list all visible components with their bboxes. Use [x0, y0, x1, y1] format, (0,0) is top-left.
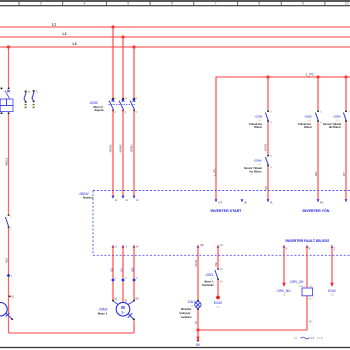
svg-text:2: 2 — [115, 111, 117, 114]
wire label W031 (rotated) — [109, 144, 113, 153]
svg-text:4: 4 — [270, 166, 272, 169]
svg-text:A1: A1 — [310, 285, 313, 288]
motor M2 lead — [114, 301, 134, 304]
terminal X2 diamonds — [111, 278, 136, 282]
wire label RUN (rotated) — [194, 260, 198, 267]
lamp L3 indicator — [195, 302, 201, 308]
wire phase 3 breaker to inverter — [133, 110, 135, 196]
svg-text:SD: SD — [244, 203, 248, 205]
wire label W043 (rotated) — [263, 143, 267, 151]
svg-text:3: 3 — [270, 111, 272, 114]
wire label W021 (rotated) — [4, 157, 8, 166]
svg-text:3: 3 — [320, 111, 322, 114]
terminal X1 diamond — [7, 274, 13, 278]
motor M1 (cropped at left edge) — [0, 303, 7, 316]
svg-text:-0284: -0284 — [333, 115, 341, 119]
switch S284 — [265, 155, 272, 169]
svg-text:1: 1 — [10, 216, 12, 219]
svg-text:L_PC: L_PC — [212, 168, 216, 176]
label DRV_NG — [277, 289, 291, 297]
label L_PC — [306, 72, 315, 76]
contact K1 main (left branch) — [5, 214, 12, 230]
wire branch RL — [267, 77, 269, 200]
switch S282 — [315, 110, 322, 124]
svg-text:V: V — [126, 247, 128, 249]
svg-text:0V: 0V — [194, 321, 198, 324]
svg-text:3: 3 — [136, 278, 138, 280]
svg-text:13: 13 — [28, 91, 31, 94]
wire label L_PC vertical (rotated) — [212, 168, 216, 176]
svg-text:NE: NE — [214, 262, 218, 266]
svg-text:M: M — [121, 305, 125, 310]
svg-text:Sigorta: Sigorta — [95, 108, 104, 112]
wire label RT (rotated) — [342, 172, 346, 176]
svg-text:2.6: 2.6 — [308, 120, 312, 122]
svg-text:-00INV: -00INV — [79, 192, 90, 196]
arrow E24V right — [330, 283, 333, 287]
switch S285 (cropped) — [343, 110, 350, 122]
svg-text:2.6: 2.6 — [258, 120, 262, 122]
motor starter Q1 pins — [1, 88, 10, 114]
inverter terminal RT — [345, 199, 348, 202]
frame top border — [0, 0, 350, 2]
relay coil DRV_OK — [290, 280, 314, 323]
switch S283 — [265, 110, 272, 124]
inverter terminal RL — [267, 199, 274, 204]
wire left branch vertical from L3 — [8, 47, 10, 333]
motor M1 PE pin — [11, 318, 13, 320]
svg-text:-0284: -0284 — [254, 159, 262, 163]
label L3 lamp — [180, 300, 196, 319]
svg-text:-0283: -0283 — [254, 115, 262, 119]
label M2 — [98, 308, 108, 316]
label E24V right — [328, 289, 337, 297]
wire DRV_NG branch — [283, 246, 285, 284]
inverter terminal SD (unwired) — [241, 199, 248, 204]
wire E24V right branch — [331, 246, 333, 284]
motor M1 pin — [9, 296, 15, 299]
motor M2 pin labels — [114, 298, 139, 302]
wire branch RH — [317, 77, 319, 200]
label S285 (cropped) — [323, 115, 341, 129]
label L2 — [63, 32, 67, 36]
svg-text:2.6: 2.6 — [258, 164, 262, 166]
circuit breaker Q030 pin numbers — [115, 97, 138, 114]
svg-text:-0282: -0282 — [304, 115, 312, 119]
svg-text:1: 1 — [115, 278, 117, 280]
svg-text:14: 14 — [311, 336, 314, 340]
svg-text:(2.1): (2.1) — [318, 336, 323, 340]
label L3 — [73, 42, 77, 46]
node junction L2/phase2 — [121, 35, 124, 38]
svg-text:E24V: E24V — [328, 289, 337, 293]
circuit breaker Q030 pins — [112, 98, 135, 111]
svg-text:E24V: E24V — [214, 301, 223, 305]
inverter U1 dashed enclosure — [93, 191, 350, 256]
svg-text:-W1: -W1 — [4, 258, 8, 264]
wire Rth branch — [197, 246, 199, 337]
svg-text:L3: L3 — [136, 200, 139, 202]
svg-text:-W021: -W021 — [4, 157, 8, 166]
svg-text:-W051: -W051 — [130, 144, 134, 153]
potential arrow 0V — [196, 337, 199, 342]
inverter terminal STR — [215, 199, 223, 204]
svg-text:B: B — [309, 248, 311, 250]
node junction L3 left — [7, 45, 10, 48]
label K1 — [202, 273, 214, 287]
svg-text:-03M2: -03M2 — [98, 308, 107, 312]
svg-text:2.8: 2.8 — [330, 295, 334, 297]
svg-text:-03L3: -03L3 — [187, 300, 196, 304]
frame ruler digits — [40, 2, 349, 6]
cross reference text bottom right — [294, 336, 323, 340]
wire label V2 (rotated) — [120, 268, 124, 272]
inverter output terminals U V W — [112, 245, 140, 249]
svg-text:2.8: 2.8 — [216, 307, 220, 309]
wire drop phase 2 from L2 — [122, 37, 124, 99]
svg-text:0V: 0V — [196, 343, 201, 347]
svg-text:9: 9 — [302, 2, 304, 6]
svg-text:24VDC: 24VDC — [299, 286, 306, 288]
svg-text:RUN: RUN — [194, 260, 198, 267]
svg-text:RL: RL — [264, 185, 268, 189]
motor M2 PE earth mark — [128, 313, 134, 319]
svg-text:Motorlar: Motorlar — [181, 307, 191, 311]
svg-text:STF: STF — [218, 203, 223, 205]
wire rail L2 — [0, 36, 350, 38]
inverter terminal 14 — [217, 245, 224, 248]
svg-text:3: 3 — [270, 155, 272, 158]
svg-text:6: 6 — [171, 2, 173, 6]
svg-text:Hız Rölesi: Hız Rölesi — [329, 126, 341, 129]
label S284 — [244, 159, 262, 174]
svg-text:A: A — [286, 247, 288, 250]
svg-text:Lambası: Lambası — [181, 315, 192, 319]
auxiliary contact S1a — [24, 91, 31, 109]
svg-text:7: 7 — [215, 2, 217, 6]
wire PE bottom rail — [9, 332, 135, 334]
label 0V — [196, 343, 201, 347]
arrow DRV_NG — [282, 283, 285, 287]
frame ruler ticks — [19, 1, 325, 6]
wire label W1 (rotated) — [4, 258, 8, 264]
svg-text:İnverter: İnverter — [83, 196, 93, 200]
motor M1 PE earth mark — [6, 313, 12, 319]
svg-text:4: 4 — [125, 111, 127, 114]
svg-text:W1: W1 — [135, 298, 139, 300]
svg-text:2: 2 — [126, 278, 128, 280]
svg-text:10: 10 — [294, 336, 297, 340]
auxiliary contact S1b — [32, 90, 39, 108]
wire contact K1 aux branch — [217, 246, 219, 298]
inverter terminal Rth — [197, 244, 205, 248]
wire motor M2 PE to rail — [133, 321, 135, 334]
svg-text:V2: V2 — [120, 268, 124, 272]
potential point E24V left — [214, 296, 223, 309]
wire label RH (rotated) — [314, 172, 318, 176]
svg-text:A2: A2 — [309, 298, 312, 301]
svg-text:14: 14 — [283, 295, 286, 297]
svg-text:Motor 1: Motor 1 — [98, 311, 108, 315]
svg-text:1: 1 — [11, 276, 13, 278]
svg-text:3: 3 — [40, 2, 42, 6]
label INVERTER YON — [303, 208, 330, 213]
label U1 inverter — [79, 192, 93, 200]
svg-text:3: 3 — [125, 97, 127, 100]
circuit breaker Q030 3-pole — [109, 99, 137, 109]
node junction 0V — [196, 328, 199, 331]
wire branch RT (right edge) — [345, 77, 347, 200]
svg-text:L2: L2 — [63, 32, 67, 36]
node junction L_PC/RT — [344, 75, 347, 78]
svg-text:21: 21 — [36, 90, 39, 93]
svg-text:Kumanda: Kumanda — [202, 284, 214, 287]
wire V inverter to motor — [122, 246, 124, 303]
wire label W2 (rotated) — [131, 267, 135, 272]
label S283 — [249, 115, 263, 129]
svg-text:RL: RL — [270, 203, 274, 205]
wire label W041 (rotated) — [119, 144, 123, 153]
svg-text:-W041: -W041 — [119, 144, 123, 153]
wire drop phase 1 from L1 — [112, 27, 114, 99]
svg-text:14: 14 — [220, 245, 223, 247]
svg-text:1: 1 — [115, 97, 117, 100]
svg-text:L1: L1 — [115, 200, 118, 202]
svg-text:4: 4 — [84, 2, 86, 6]
svg-text:Rölesi: Rölesi — [304, 126, 312, 129]
svg-text:A2: A2 — [309, 321, 313, 324]
frame ruler bottom line — [0, 5, 350, 7]
inverter terminal RH — [317, 199, 324, 204]
wire label W051 (rotated) — [130, 144, 134, 153]
svg-text:U: U — [115, 247, 117, 249]
svg-text:4: 4 — [270, 122, 272, 125]
wire DRV_OK branch — [306, 246, 308, 331]
svg-text:2.6: 2.6 — [336, 120, 340, 122]
svg-text:2: 2 — [10, 228, 12, 231]
node junction L_PC/RH — [316, 75, 319, 78]
svg-text:13: 13 — [220, 268, 223, 271]
label INVERTER FAULT — [286, 239, 329, 243]
svg-text:L3: L3 — [73, 42, 77, 46]
wire label 0V (rotated) — [194, 321, 198, 324]
svg-text:-02K1: -02K1 — [205, 273, 214, 277]
wire label RL (rotated) — [264, 185, 268, 189]
node junction L_PC/RL — [266, 75, 269, 78]
wire rail L1 — [0, 26, 350, 28]
wire U inverter to motor — [112, 246, 114, 302]
wire label U2 (rotated) — [110, 268, 114, 272]
svg-text:L_PC: L_PC — [306, 72, 315, 76]
wire phase 2 breaker to inverter — [122, 110, 124, 196]
svg-text:-DRV_OK: -DRV_OK — [290, 280, 305, 284]
motor M2 — [116, 302, 130, 316]
label S282 — [298, 115, 312, 129]
inverter fault terminals A B C — [283, 245, 336, 251]
svg-text:3~: 3~ — [121, 311, 125, 315]
wire rail L3 — [0, 46, 350, 48]
svg-text:U2: U2 — [110, 268, 114, 272]
svg-text:İNVERTER START: İNVERTER START — [211, 209, 243, 213]
wire phase 1 breaker to inverter — [112, 110, 114, 196]
node junction L1/phase1 — [111, 25, 114, 28]
contact K1 auxiliary — [215, 268, 223, 283]
svg-text:W2: W2 — [131, 267, 135, 272]
frame bottom border — [0, 347, 350, 349]
wire drop phase 3 from L3 — [133, 47, 135, 99]
svg-text:L2: L2 — [126, 200, 129, 202]
svg-text:RT: RT — [342, 172, 346, 176]
svg-text:8: 8 — [258, 2, 260, 6]
svg-text:5: 5 — [127, 2, 129, 6]
svg-text:14: 14 — [220, 280, 223, 283]
motor M2 pins — [112, 300, 135, 302]
svg-text:6: 6 — [136, 111, 138, 114]
wire 0V horizontal — [198, 329, 307, 331]
svg-text:U1: U1 — [114, 298, 118, 300]
svg-text:U1: U1 — [11, 296, 15, 298]
svg-text:Rth: Rth — [200, 244, 204, 247]
svg-text:RH: RH — [314, 172, 318, 176]
node junction L3/phase3 — [132, 45, 135, 48]
svg-text:İNVERTER FAULT BİLGİSİ: İNVERTER FAULT BİLGİSİ — [286, 239, 329, 243]
wire L_PC rail — [216, 77, 350, 200]
svg-text:L1: L1 — [52, 23, 56, 27]
svg-text:-0043: -0043 — [263, 143, 267, 151]
terminal X2 pin labels — [115, 278, 138, 280]
motor starter Q1 (left, partially cropped) — [0, 90, 13, 112]
svg-text:-0030: -0030 — [89, 101, 98, 105]
label Q030 — [89, 101, 104, 112]
svg-text:W: W — [136, 247, 139, 249]
svg-text:C: C — [334, 248, 336, 250]
svg-text:İNVERTER YÖN: İNVERTER YÖN — [303, 208, 330, 213]
svg-text:RH: RH — [320, 203, 324, 205]
inverter input terminals L1 L2 L3 — [112, 196, 140, 203]
svg-text:Çalışıyor: Çalışıyor — [180, 311, 191, 315]
svg-text:4: 4 — [320, 122, 322, 125]
svg-text:DRV_NG: DRV_NG — [277, 289, 291, 293]
label INVERTER START — [211, 209, 243, 213]
svg-text:5: 5 — [136, 97, 138, 100]
wire label 14 (rotated) — [214, 262, 218, 266]
svg-text:10: 10 — [345, 2, 349, 6]
svg-text:Rölesi: Rölesi — [254, 126, 262, 129]
label L1 — [52, 23, 56, 27]
svg-text:-W031: -W031 — [109, 144, 113, 153]
wire W inverter to motor PE — [133, 246, 135, 301]
svg-text:Hız Rölesi: Hız Rölesi — [250, 170, 262, 173]
